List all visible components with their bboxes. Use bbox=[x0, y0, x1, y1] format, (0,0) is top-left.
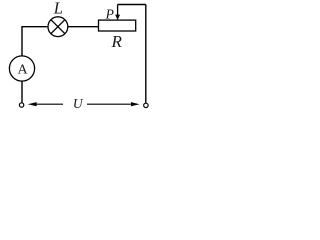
left terminal bbox=[19, 103, 23, 107]
slider arrow P bbox=[115, 5, 120, 21]
wire right vertical bbox=[145, 5, 147, 104]
U left arrow bbox=[28, 102, 63, 106]
wire lamp to rheostat bbox=[68, 26, 99, 28]
svg-text:A: A bbox=[18, 63, 29, 78]
svg-text:L: L bbox=[53, 0, 63, 18]
svg-text:P: P bbox=[105, 7, 114, 22]
wire top-right horizontal bbox=[118, 4, 146, 6]
right terminal bbox=[144, 103, 148, 107]
ammeter A bbox=[9, 56, 34, 81]
lamp L (circle with X) bbox=[48, 17, 68, 37]
wire ammeter to left terminal bbox=[21, 81, 23, 103]
svg-text:U: U bbox=[73, 96, 84, 111]
svg-text:R: R bbox=[111, 32, 123, 51]
rheostat R body bbox=[99, 20, 136, 31]
wire left vertical + top-left horizontal bbox=[22, 27, 48, 57]
U right arrow bbox=[87, 102, 140, 106]
